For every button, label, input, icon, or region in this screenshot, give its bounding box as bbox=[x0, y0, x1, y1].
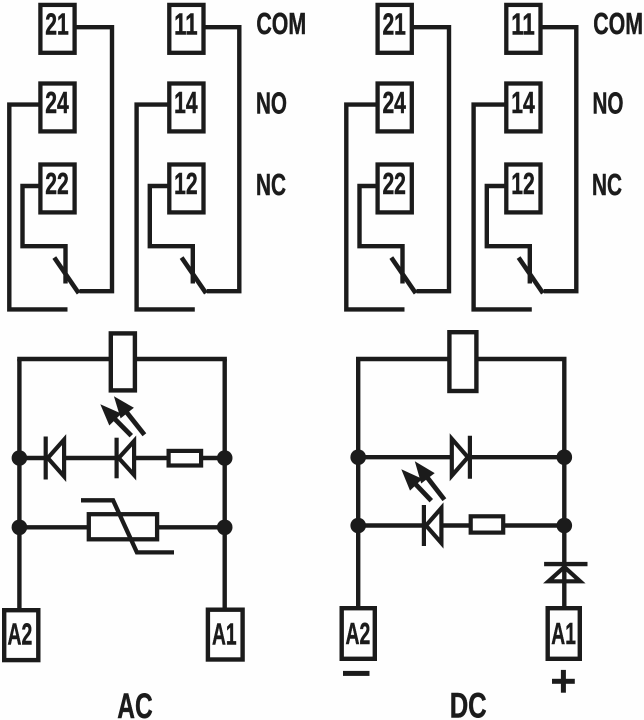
LED light arrows (DC) bbox=[401, 461, 444, 500]
svg-text:COM: COM bbox=[593, 7, 643, 41]
terminal box 22 (DC relay pole 2) bbox=[378, 165, 412, 213]
varistor RV1 (AC) bbox=[81, 500, 174, 552]
LED H1 (AC) bbox=[117, 438, 135, 479]
wire DC lower branch bbox=[358, 523, 564, 527]
svg-text:21: 21 bbox=[45, 8, 69, 42]
wire DC top left bbox=[356, 357, 448, 361]
terminal A2 (DC) bbox=[342, 608, 375, 659]
svg-text:24: 24 bbox=[45, 86, 69, 120]
junction node DC lower-right bbox=[557, 518, 573, 534]
wire AC right rail (A1) bbox=[222, 359, 226, 609]
svg-text:NC: NC bbox=[592, 168, 622, 202]
wire 14 NO to fixed contact bbox=[137, 105, 195, 310]
svg-text:A1: A1 bbox=[551, 617, 576, 651]
wire 21 COM to movable contact bbox=[75, 27, 112, 291]
svg-text:24: 24 bbox=[382, 86, 406, 120]
junction node AC lower-left bbox=[12, 520, 28, 536]
terminal box 14 (AC relay pole 1) bbox=[169, 84, 203, 132]
wire 22 NC to fixed contact bbox=[23, 186, 66, 284]
polarity mark minus (A2) bbox=[343, 671, 370, 676]
resistor R1 (DC) bbox=[471, 516, 504, 532]
switch blade contact (AC relay pole 1) bbox=[182, 258, 206, 294]
wire 11 COM to movable contact bbox=[541, 27, 577, 291]
svg-text:11: 11 bbox=[511, 8, 535, 42]
wire AC lower branch bbox=[19, 525, 224, 529]
terminal box 22 (AC relay pole 2) bbox=[40, 165, 74, 213]
relay coil K1 (AC) bbox=[111, 333, 135, 390]
wire 11 COM to movable contact bbox=[204, 27, 240, 291]
switch blade contact (DC relay pole 1) bbox=[519, 258, 543, 294]
svg-text:AC: AC bbox=[117, 687, 152, 720]
terminal box 11 (DC relay pole 1) bbox=[506, 5, 540, 53]
relay coil K1 (DC) bbox=[449, 332, 476, 391]
diode V1 (AC) bbox=[46, 437, 64, 480]
wire AC left rail (A2) bbox=[17, 359, 21, 609]
wire DC top right bbox=[478, 357, 567, 361]
wire 21 COM to movable contact bbox=[412, 27, 449, 291]
wire AC top left bbox=[17, 357, 110, 361]
wire 12 NC to fixed contact bbox=[150, 186, 193, 284]
svg-text:NO: NO bbox=[256, 86, 287, 120]
switch blade contact (AC relay pole 2) bbox=[54, 258, 78, 294]
wire AC upper branch bbox=[19, 456, 224, 460]
svg-text:COM: COM bbox=[256, 7, 306, 41]
svg-text:21: 21 bbox=[382, 8, 406, 42]
switch blade contact (DC relay pole 2) bbox=[391, 258, 415, 294]
wire 22 NC to fixed contact bbox=[360, 186, 403, 284]
svg-text:A1: A1 bbox=[212, 617, 237, 651]
svg-text:14: 14 bbox=[511, 86, 535, 120]
resistor R1 (AC) bbox=[169, 451, 202, 466]
svg-text:12: 12 bbox=[174, 167, 198, 201]
terminal box 24 (DC relay pole 2) bbox=[378, 84, 412, 132]
wire DC left rail (A2) bbox=[356, 359, 360, 607]
wire DC upper branch bbox=[358, 455, 564, 459]
svg-text:A2: A2 bbox=[346, 617, 371, 651]
terminal box 21 (AC relay pole 2) bbox=[40, 5, 74, 53]
junction node AC upper-left bbox=[12, 450, 28, 466]
diode V1 (DC) bbox=[452, 436, 470, 479]
svg-text:A2: A2 bbox=[8, 617, 33, 651]
svg-text:22: 22 bbox=[45, 167, 69, 201]
junction node DC lower-left bbox=[350, 518, 366, 534]
svg-text:NO: NO bbox=[593, 86, 624, 120]
diode V2 (DC, on A1 rail) bbox=[544, 564, 587, 581]
LED H1 (DC) bbox=[424, 505, 442, 546]
wire 24 NO to fixed contact bbox=[9, 105, 67, 310]
svg-text:DC: DC bbox=[450, 687, 487, 720]
junction node AC upper-right bbox=[217, 450, 233, 466]
terminal box 24 (AC relay pole 2) bbox=[40, 84, 74, 132]
wire AC top right bbox=[136, 357, 227, 361]
junction node DC upper-right bbox=[557, 449, 573, 465]
wire 24 NO to fixed contact bbox=[346, 105, 404, 310]
svg-text:NC: NC bbox=[256, 168, 286, 202]
terminal A1 (AC) bbox=[208, 610, 243, 660]
LED light arrows (AC) bbox=[100, 396, 144, 435]
terminal box 12 (DC relay pole 1) bbox=[506, 165, 540, 213]
wire 14 NO to fixed contact bbox=[474, 105, 532, 310]
terminal box 11 (AC relay pole 1) bbox=[169, 5, 203, 53]
svg-text:11: 11 bbox=[174, 8, 198, 42]
wire DC right rail (A1) bbox=[562, 359, 566, 607]
junction node DC upper-left bbox=[350, 449, 366, 465]
polarity mark plus (A1) bbox=[552, 670, 575, 693]
terminal box 21 (DC relay pole 2) bbox=[378, 5, 412, 53]
svg-text:12: 12 bbox=[511, 167, 535, 201]
svg-text:22: 22 bbox=[382, 167, 406, 201]
junction node AC lower-right bbox=[217, 520, 233, 536]
terminal A1 (DC) bbox=[548, 608, 580, 659]
terminal box 14 (DC relay pole 1) bbox=[506, 84, 540, 132]
svg-text:14: 14 bbox=[174, 86, 198, 120]
terminal A2 (AC) bbox=[4, 610, 38, 660]
wire 12 NC to fixed contact bbox=[487, 186, 530, 284]
terminal box 12 (AC relay pole 1) bbox=[169, 165, 203, 213]
